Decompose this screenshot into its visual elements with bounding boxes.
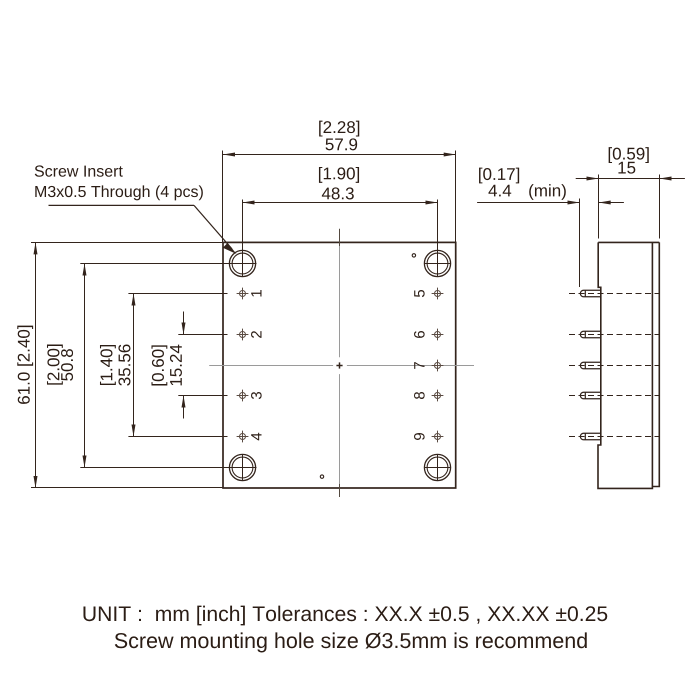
pin 5 [432, 288, 444, 300]
screw hole bottom-left [229, 454, 255, 481]
pin 6 [432, 329, 444, 341]
pin number 5 [414, 290, 424, 297]
dimension 15.24 [178, 312, 227, 419]
side pin 5 [580, 433, 600, 440]
dimension 48.3 [243, 200, 438, 278]
orientation dot top-right [412, 254, 415, 257]
pin number 7 [414, 362, 424, 369]
horizontal centerline [209, 365, 474, 367]
screw insert label [35, 165, 123, 176]
side pin 1 [580, 290, 600, 297]
side pin 5 dashed line [569, 436, 660, 438]
pin 8 [432, 390, 444, 402]
center mark [336, 362, 342, 368]
pin 4 [237, 431, 249, 443]
dimension 35.56 [128, 294, 227, 437]
dimension 15 [576, 175, 685, 239]
pin number 4 [251, 433, 261, 441]
note line 2 [115, 632, 587, 652]
note line 1 [83, 606, 607, 626]
vertical centerline [339, 229, 341, 497]
pin 2 [237, 329, 249, 341]
pin 7 [432, 360, 444, 372]
side pin 3 [580, 362, 600, 369]
dimension 4.4 min [477, 199, 624, 288]
side pin 4 [580, 392, 600, 399]
side view outline [598, 242, 659, 488]
side pin 4 dashed line [569, 395, 660, 397]
dimension 57.9 [223, 151, 456, 243]
side pin 1 dashed line [569, 293, 660, 295]
front view body outline [223, 242, 456, 488]
orientation dot bottom-left [320, 475, 323, 478]
side pin 3 dashed line [569, 365, 660, 367]
dimension 61.0 [31, 242, 223, 488]
pin number 3 [251, 392, 262, 399]
pin number 2 [251, 331, 261, 338]
dimension 50.8 [80, 264, 256, 468]
side pin 2 [580, 331, 600, 338]
pin number 1 [251, 290, 261, 296]
leader line [49, 205, 237, 254]
screw hole top-right [424, 250, 451, 276]
pin 1 [237, 288, 249, 300]
pin 9 [432, 431, 444, 443]
pin number 9 [414, 433, 425, 440]
pin number 8 [414, 392, 425, 399]
pin 3 [237, 390, 249, 402]
screw hole top-left [229, 250, 255, 276]
pin number 6 [414, 331, 425, 338]
side pin 2 dashed line [569, 334, 660, 336]
screw hole bottom-right [424, 454, 451, 481]
